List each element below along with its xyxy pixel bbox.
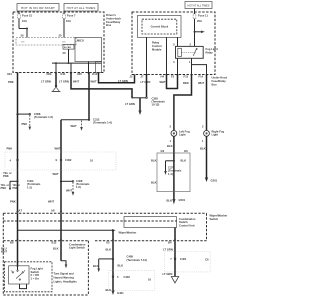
- dashed line 2: [3, 220, 177, 222]
- svg-text:10A: 10A: [66, 19, 71, 23]
- svg-text:WHT: WHT: [66, 189, 72, 193]
- svg-text:A7: A7: [19, 208, 23, 212]
- wire fuse7 down: [63, 29, 65, 38]
- switch SW1 box: [9, 266, 29, 289]
- wire B-CAN down: [68, 49, 70, 63]
- combination pins line: [3, 240, 88, 242]
- combination light switch dashed top line 1: [3, 212, 206, 214]
- svg-text:BLK: BLK: [167, 198, 173, 202]
- wire jumper H4-F2: [167, 75, 178, 89]
- under-hood fuse/relay box (dashed): [132, 12, 215, 75]
- relay control module box: [138, 16, 182, 52]
- svg-text:PNK: PNK: [1, 186, 7, 190]
- svg-text:BLK: BLK: [167, 144, 173, 148]
- combination box left edge: [2, 213, 4, 295]
- svg-text:10-12): 10-12): [152, 103, 160, 107]
- svg-text:(Terminals 1-6): (Terminals 1-6): [93, 121, 112, 125]
- fog light switch dashed box: [5, 262, 53, 292]
- svg-text:A3: A3: [106, 241, 110, 245]
- wire A8 to gray box arrow: [61, 261, 66, 265]
- fuse F7: [63, 11, 76, 29]
- svg-text:B4: B4: [168, 241, 172, 245]
- svg-text:WHT: WHT: [198, 81, 204, 85]
- svg-text:Light: Light: [212, 133, 219, 137]
- svg-text:Switch: Switch: [179, 220, 188, 224]
- svg-text:20: 20: [63, 51, 66, 55]
- wire relay pin3 up: [177, 37, 179, 46]
- pin B12: [52, 240, 63, 251]
- svg-text:PNK: PNK: [8, 80, 14, 84]
- MICU input dashed block: [16, 38, 76, 46]
- svg-text:C401: C401: [180, 257, 187, 261]
- svg-text:Fuse 21: Fuse 21: [22, 14, 33, 18]
- svg-text:Combination: Combination: [179, 217, 196, 221]
- svg-text:N23: N23: [47, 72, 52, 76]
- svg-text:LT GRN: LT GRN: [163, 248, 173, 252]
- svg-text:A8: A8: [51, 208, 55, 212]
- svg-text:G401: G401: [117, 291, 124, 295]
- svg-text:Left Fog: Left Fog: [179, 129, 190, 133]
- svg-text:WHT: WHT: [71, 124, 77, 128]
- lamp right fog light: [202, 125, 224, 144]
- wire A7 inside: [17, 213, 19, 267]
- wire PNK X34 down: [17, 73, 19, 115]
- wiper box right edge: [206, 213, 208, 241]
- pin D13 (sub box out): [97, 73, 99, 75]
- svg-text:WR: WR: [62, 42, 66, 44]
- wire X35 to C305: [71, 73, 132, 98]
- pin F15: [183, 75, 193, 86]
- svg-text:Fuse 7: Fuse 7: [67, 14, 76, 18]
- branch arrow to other circuits: [194, 31, 205, 34]
- svg-text:H4: H4: [161, 75, 165, 79]
- svg-text:WHT: WHT: [53, 172, 59, 176]
- pin A7: [16, 208, 22, 213]
- svg-text:BLK: BLK: [106, 288, 112, 292]
- svg-text:MICU: MICU: [77, 39, 84, 43]
- svg-text:BLK: BLK: [106, 247, 112, 251]
- svg-text:BLK: BLK: [53, 247, 59, 251]
- svg-text:J2: J2: [130, 75, 133, 79]
- svg-text:Light: Light: [179, 133, 186, 137]
- pin B4: [163, 240, 176, 252]
- svg-text:(Terminals: (Terminals: [168, 169, 182, 173]
- wire WHT down to C408: [60, 120, 62, 182]
- svg-text:Turn Signal and: Turn Signal and: [54, 272, 74, 276]
- svg-text:LT GRN: LT GRN: [125, 102, 135, 106]
- combination box bottom: [3, 294, 88, 296]
- wire fuse21 to MICU pin 20: [19, 28, 27, 30]
- wire control unit to B4: [174, 228, 176, 259]
- connector C312: [61, 118, 112, 131]
- connector D12 pin: [87, 72, 97, 83]
- svg-text:Right Fog: Right Fog: [212, 129, 225, 133]
- header box HOT IN ON OR START: [17, 4, 59, 12]
- svg-text:16: 16: [148, 278, 151, 282]
- pin B9: [1, 240, 19, 254]
- header box HOT AT ALL TIMES (right): [185, 2, 212, 9]
- svg-text:LT GRN: LT GRN: [59, 79, 69, 83]
- header box HOT AT ALL TIMES (left): [64, 4, 98, 12]
- svg-text:Control Unit: Control Unit: [179, 224, 195, 228]
- wire A8 inside: [60, 213, 62, 260]
- ground G501 (left fog): [167, 198, 186, 205]
- pin H4: [160, 75, 168, 85]
- svg-text:1-4): 1-4): [168, 172, 173, 176]
- wire to ground pin: [55, 63, 57, 72]
- svg-text:C370: C370: [168, 165, 175, 169]
- svg-text:1-6): 1-6): [76, 185, 81, 189]
- pin J2 (under-hood): [133, 75, 135, 77]
- wire A3/BLK chain: [112, 230, 114, 259]
- svg-text:J7: J7: [141, 75, 144, 79]
- svg-text:LT GRN: LT GRN: [163, 272, 173, 276]
- svg-text:PNK: PNK: [22, 122, 28, 126]
- pin F14: [198, 75, 208, 86]
- svg-text:WHT: WHT: [55, 147, 61, 151]
- wire MICU sub box to under-hood J2: [99, 73, 135, 83]
- svg-text:Lights, Headlights: Lights, Headlights: [54, 279, 78, 283]
- svg-text:WHT: WHT: [73, 79, 79, 83]
- svg-text:G501: G501: [179, 198, 186, 202]
- relay U1 Fog Light Relay: [173, 43, 218, 64]
- svg-text:CombinationLight Switch: CombinationLight Switch: [69, 242, 86, 249]
- svg-text:G6: G6: [184, 149, 188, 153]
- hollow arrow (to other circuit): [171, 277, 178, 284]
- svg-text:10A: 10A: [22, 19, 27, 23]
- svg-text:BLK: BLK: [181, 159, 187, 163]
- wire MICU bottom bus: [52, 62, 102, 64]
- svg-text:D12: D12: [92, 72, 97, 76]
- svg-text:Fuse 11: Fuse 11: [198, 14, 208, 18]
- combination switch control unit box: [124, 217, 196, 228]
- ground G (MICU): [52, 73, 61, 92]
- svg-text:LT GRN: LT GRN: [141, 80, 151, 84]
- connector C402 dotted band: [5, 152, 116, 170]
- svg-text:BLK: BLK: [93, 264, 99, 268]
- svg-text:HOT IN ON OR START: HOT IN ON OR START: [21, 6, 55, 10]
- wire right fog to ground: [206, 136, 208, 176]
- svg-text:B12: B12: [52, 241, 57, 245]
- svg-text:G6: G6: [161, 149, 165, 153]
- connector N23/D11 pin: [41, 72, 69, 83]
- svg-text:WHT: WHT: [160, 80, 166, 84]
- svg-text:WHT: WHT: [1, 250, 7, 254]
- svg-text:20A: 20A: [197, 19, 202, 23]
- ground G401: [111, 291, 124, 296]
- pin F2: [171, 75, 179, 79]
- svg-text:HOT AT ALL TIMES: HOT AT ALL TIMES: [188, 5, 210, 8]
- connector C401 dotted box: [165, 252, 211, 272]
- svg-text:X35: X35: [77, 72, 82, 76]
- wire control block to H4: [166, 37, 168, 74]
- svg-text:WHT: WHT: [48, 200, 54, 204]
- C370 box: [151, 149, 190, 192]
- svg-text:F15: F15: [184, 75, 189, 79]
- svg-text:B9: B9: [10, 241, 14, 245]
- pin A8: [51, 208, 62, 213]
- wire to ground arrow: [174, 259, 176, 277]
- svg-text:Fog Light: Fog Light: [206, 47, 218, 51]
- svg-text:RED: RED: [183, 81, 189, 85]
- connector X35 pin: [70, 72, 82, 83]
- svg-text:BLK: BLK: [200, 147, 206, 151]
- fuse F21: [18, 11, 33, 29]
- svg-text:PNK: PNK: [7, 147, 13, 151]
- wire PNK continues: [17, 114, 19, 213]
- svg-text:YEL or: YEL or: [13, 185, 20, 187]
- svg-text:BLK: BLK: [151, 181, 157, 185]
- wire MICU out stubs: [70, 63, 72, 72]
- connector C308: [16, 112, 53, 131]
- fuse F11: [193, 9, 208, 47]
- svg-text:C402: C402: [124, 275, 131, 279]
- connector C402 (bottom) dotted box: [109, 270, 155, 290]
- svg-text:(Terminals 1-6): (Terminals 1-6): [34, 115, 53, 119]
- svg-text:F2: F2: [171, 75, 175, 79]
- connector C404: [1, 171, 41, 190]
- svg-text:PNK: PNK: [3, 174, 9, 178]
- svg-text:Relay: Relay: [206, 50, 214, 54]
- svg-text:LT GRN: LT GRN: [41, 79, 51, 83]
- svg-text:10: 10: [90, 158, 93, 162]
- svg-text:Hazard Warning: Hazard Warning: [54, 276, 75, 280]
- wire relay pin1 branch to F14: [192, 65, 207, 75]
- svg-text:G201: G201: [211, 179, 218, 183]
- svg-text:BLK: BLK: [151, 159, 157, 163]
- wire F14 to right fog light: [206, 75, 208, 131]
- svg-text:C6: C6: [205, 258, 209, 262]
- wire left fog to ground: [173, 136, 175, 199]
- svg-text:PNK: PNK: [10, 200, 16, 204]
- combination box right edge: [87, 241, 89, 295]
- wire J7 to C305: [146, 75, 148, 98]
- svg-text:C402: C402: [65, 158, 72, 162]
- svg-text:PNK: PNK: [13, 188, 18, 190]
- op MICU box: [75, 38, 102, 62]
- wire control block to J7: [146, 37, 148, 74]
- box Turn Signal and Hazard Warning Lights, Headlights: [54, 272, 78, 284]
- svg-text:D11: D11: [61, 72, 66, 76]
- connector C305: [125, 96, 165, 115]
- control block (dashed): [142, 19, 177, 34]
- svg-text:25: 25: [59, 33, 62, 37]
- MICU sub box: [96, 62, 102, 73]
- wire WHT to A8: [60, 181, 62, 213]
- wire WHT D12 down: [88, 73, 90, 120]
- svg-text:X34: X34: [7, 72, 12, 76]
- svg-text:Control Block: Control Block: [151, 25, 169, 29]
- svg-text:LT GRN: LT GRN: [118, 79, 128, 83]
- pin J7: [141, 75, 151, 85]
- ground G201: [205, 177, 218, 183]
- svg-text:HOT AT ALL TIMES: HOT AT ALL TIMES: [67, 6, 96, 10]
- svg-text:1-3): 1-3): [27, 185, 32, 189]
- svg-text:F14: F14: [199, 75, 204, 79]
- B-CAN block: [63, 44, 75, 55]
- svg-text:BLK: BLK: [118, 264, 124, 268]
- connector X34 pin: [7, 72, 19, 84]
- svg-text:20: 20: [21, 33, 24, 37]
- wire relay pin1 down: [191, 58, 193, 74]
- svg-text:WR: WR: [21, 42, 25, 44]
- connector C408 (left): [60, 179, 90, 196]
- lamp left fog light: [170, 125, 190, 144]
- wire BLK to C402: [112, 259, 114, 291]
- wire relay pin4 down to F2: [177, 58, 179, 74]
- svg-text:WHT: WHT: [91, 79, 97, 83]
- svg-text:Wiper/Washer: Wiper/Washer: [119, 231, 137, 235]
- svg-text:(Terminals 7-12): (Terminals 7-12): [127, 258, 148, 262]
- wire wiper/washer branch: [18, 229, 113, 231]
- wiper box bottom dashed: [95, 240, 207, 242]
- pin A3: [106, 240, 115, 252]
- wire F15 to left fog light: [174, 75, 192, 131]
- Driver's Under-dash Fuse/Relay Box (dashed): [13, 12, 104, 73]
- connector C408 (right): [93, 255, 147, 273]
- svg-text:B-CAN: B-CAN: [64, 46, 71, 49]
